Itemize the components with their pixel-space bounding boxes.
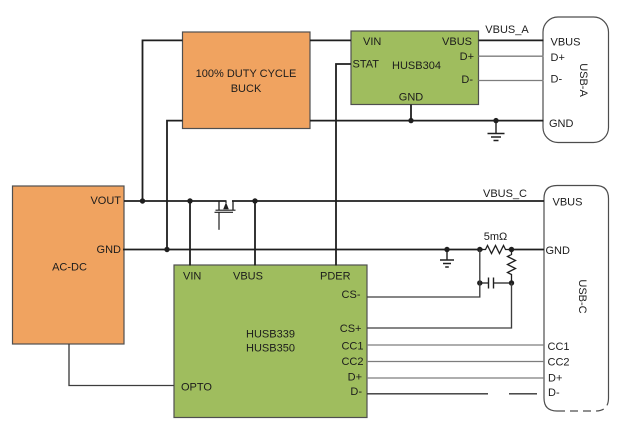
svg-text:5mΩ: 5mΩ: [484, 231, 508, 243]
svg-text:D-: D-: [548, 387, 560, 399]
svg-text:PDER: PDER: [320, 271, 351, 283]
svg-text:VIN: VIN: [363, 36, 381, 48]
wire VBUS drop to HUSB339: [254, 201, 256, 266]
svg-text:D-: D-: [461, 74, 473, 86]
block 100% DUTY CYCLE BUCK: [183, 32, 311, 129]
svg-text:D+: D+: [548, 373, 562, 385]
capacitor C1: [480, 278, 512, 289]
wire VIN drop to HUSB339: [189, 201, 191, 266]
svg-text:VBUS: VBUS: [233, 271, 263, 283]
wire CC2: [367, 361, 544, 363]
node C1 right junction: [509, 280, 514, 285]
svg-text:VBUS: VBUS: [442, 36, 472, 48]
svg-text:CS+: CS+: [340, 323, 362, 335]
svg-text:CS-: CS-: [342, 289, 361, 301]
svg-text:VBUS: VBUS: [551, 37, 581, 49]
node VOUT-buck junction: [140, 198, 145, 203]
node VBUS junction: [252, 198, 257, 203]
svg-text:HUSB304: HUSB304: [392, 60, 441, 72]
resistor R1 5mOhm: [483, 231, 509, 254]
node R1 left junction: [477, 247, 482, 252]
node C1 left junction: [477, 280, 482, 285]
svg-text:HUSB339: HUSB339: [246, 329, 295, 341]
node HUSB304 gnd junction: [408, 118, 413, 123]
wire VBUS_A: [479, 39, 544, 41]
svg-text:VBUS: VBUS: [553, 197, 583, 209]
svg-text:GND: GND: [97, 244, 122, 256]
svg-text:USB-C: USB-C: [576, 279, 588, 313]
svg-text:AC-DC: AC-DC: [52, 262, 87, 274]
wire STAT to PDER: [336, 64, 351, 266]
svg-text:D-: D-: [551, 74, 563, 86]
svg-text:GND: GND: [399, 92, 424, 104]
svg-text:BUCK: BUCK: [231, 83, 262, 95]
svg-text:VIN: VIN: [183, 271, 201, 283]
wire HUSB304 GND: [410, 105, 412, 121]
svg-text:HUSB350: HUSB350: [246, 343, 295, 355]
block AC-DC: [13, 186, 125, 344]
wire buck gnd left: [167, 121, 183, 250]
svg-text:D+: D+: [551, 52, 565, 64]
wire D+ USB-A: [479, 55, 544, 57]
svg-text:STAT: STAT: [353, 59, 380, 71]
svg-text:CC1: CC1: [548, 341, 570, 353]
block U1 HUSB304: [351, 31, 479, 105]
wire GND rail: [123, 249, 544, 251]
wire D- USB-C: [367, 393, 537, 395]
svg-text:100% DUTY CYCLE: 100% DUTY CYCLE: [196, 68, 297, 80]
svg-text:D-: D-: [350, 386, 362, 398]
svg-text:VOUT: VOUT: [90, 195, 121, 207]
svg-text:CC1: CC1: [341, 341, 363, 353]
wire buck to HUSB304 VIN: [310, 39, 351, 41]
resistor R2 sense: [508, 250, 516, 284]
svg-text:GND: GND: [549, 118, 574, 130]
svg-text:CC2: CC2: [341, 356, 363, 368]
connector USB-C: [544, 186, 609, 412]
wire buck input: [143, 40, 183, 201]
svg-text:GND: GND: [546, 245, 571, 257]
wire OPTO: [69, 344, 174, 386]
svg-text:D+: D+: [348, 372, 362, 384]
ground GND-A symbol: [488, 118, 505, 141]
svg-text:D+: D+: [460, 51, 474, 63]
wire VOUT rail: [124, 200, 544, 202]
svg-text:VBUS_A: VBUS_A: [485, 24, 529, 36]
transistor Q1 load switch: [215, 201, 236, 230]
wire D+ USB-C: [367, 377, 544, 379]
connector USB-A: [543, 17, 609, 143]
block U2 HUSB339/HUSB350: [174, 265, 367, 418]
wire D- USB-A: [479, 80, 544, 82]
wire CS-: [367, 250, 480, 298]
wire top GND rail: [310, 120, 544, 122]
node VIN junction: [187, 198, 192, 203]
wire CC1: [367, 344, 544, 346]
svg-text:CC2: CC2: [548, 356, 570, 368]
svg-text:USB-A: USB-A: [577, 63, 589, 97]
wire CS+: [367, 283, 512, 328]
node gnd-buck junction: [164, 247, 169, 252]
node R1 right junction: [509, 247, 514, 252]
ground GND-C symbol: [440, 247, 454, 267]
svg-text:OPTO: OPTO: [181, 382, 212, 394]
svg-text:VBUS_C: VBUS_C: [483, 188, 527, 200]
